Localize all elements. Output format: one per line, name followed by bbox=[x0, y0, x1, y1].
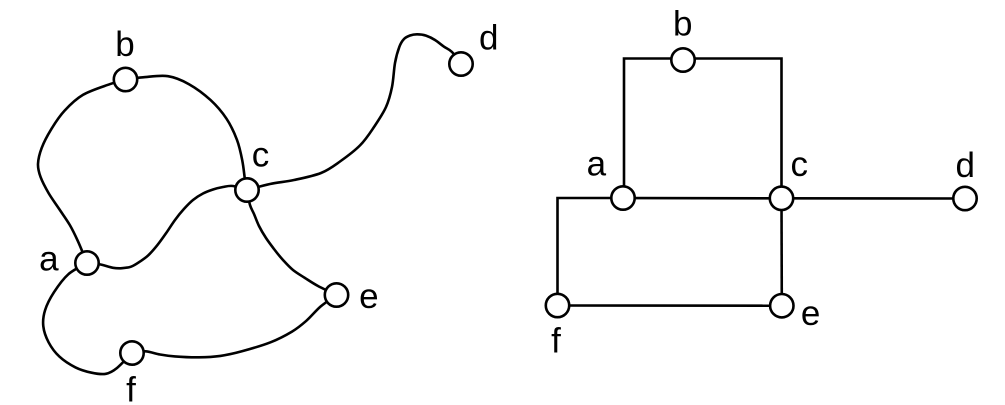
svg-text:e: e bbox=[801, 294, 820, 333]
node d (right graph) bbox=[953, 187, 976, 210]
wire edge b-c (left graph) bbox=[126, 76, 248, 190]
node f (right graph) bbox=[546, 294, 569, 317]
wire edge a-c (left graph) bbox=[87, 186, 247, 268]
svg-text:b: b bbox=[115, 25, 134, 64]
svg-text:d: d bbox=[479, 19, 498, 58]
node b (left graph) bbox=[114, 68, 137, 91]
wire edge f-e (right graph) bbox=[558, 304, 782, 307]
node a (left graph) bbox=[75, 251, 98, 274]
svg-text:a: a bbox=[587, 145, 607, 184]
wire edge c-d (left graph) bbox=[247, 34, 461, 190]
node e (left graph) bbox=[325, 283, 348, 306]
wire edge f-e (left graph) bbox=[132, 295, 337, 357]
wire edge a-b-c top U (right graph) bbox=[624, 59, 782, 199]
wire edge a-f (left graph) bbox=[43, 263, 132, 374]
svg-text:f: f bbox=[551, 322, 561, 361]
wire edge c-d (right graph) bbox=[782, 197, 966, 200]
wire edge a-f L (right graph) bbox=[558, 198, 624, 306]
wire edge c-e (left graph) bbox=[247, 190, 337, 295]
svg-text:e: e bbox=[359, 277, 378, 316]
wire edge a-c (right graph) bbox=[623, 197, 782, 200]
svg-text:d: d bbox=[955, 146, 974, 185]
node c (left graph) bbox=[235, 178, 258, 201]
svg-text:c: c bbox=[252, 136, 270, 175]
node b (right graph) bbox=[671, 48, 694, 71]
node c (right graph) bbox=[770, 187, 793, 210]
svg-text:a: a bbox=[39, 240, 59, 279]
svg-text:c: c bbox=[790, 145, 808, 184]
svg-text:b: b bbox=[673, 5, 692, 44]
wire edge a-b (left graph) bbox=[38, 80, 126, 264]
node f (left graph) bbox=[120, 341, 143, 364]
node e (right graph) bbox=[770, 294, 793, 317]
svg-text:f: f bbox=[126, 370, 136, 405]
wire edge c-e (right graph) bbox=[780, 198, 783, 305]
node a (right graph) bbox=[611, 186, 634, 209]
node d (left graph) bbox=[449, 52, 472, 75]
